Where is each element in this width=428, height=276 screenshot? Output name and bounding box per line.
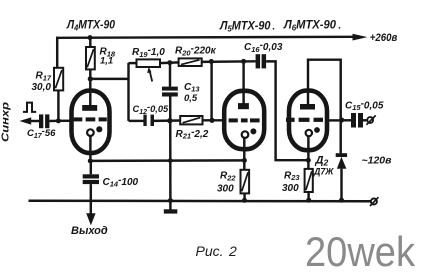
svg-text:+260в: +260в (370, 32, 398, 44)
svg-text:Д2: Д2 (315, 155, 329, 168)
svg-text:300: 300 (282, 183, 299, 194)
capacitor C13 (162, 63, 178, 97)
node: tube2 anode junction (241, 59, 246, 64)
svg-text:Л5МТХ-90: Л5МТХ-90 (219, 19, 271, 34)
svg-text:С16-0,03: С16-0,03 (244, 40, 283, 54)
wire: anode node to R19/C12 branch (90, 78, 128, 80)
Л4 cathode lead (89, 136, 91, 161)
speck after Л5 label (273, 28, 275, 30)
Л4 anode lead (89, 79, 91, 106)
capacitor C16 plates (256, 54, 267, 68)
resistor R18 (86, 38, 95, 79)
wire: R20 node down to grid node (210, 62, 212, 121)
Л4 cathode circle (87, 129, 94, 136)
wire: C12 to R21 (154, 119, 180, 122)
wire: bus left corner down to R17 (56, 37, 58, 68)
Л5 cathode circle (242, 131, 249, 138)
resistor R22 (241, 170, 250, 201)
ground (164, 209, 178, 213)
+260в supply arrow head (353, 34, 368, 41)
svg-text:2: 2 (228, 243, 237, 259)
tube Л5 envelope (224, 91, 264, 149)
resistor R17 (54, 68, 63, 121)
svg-text:R21-2,2: R21-2,2 (176, 127, 209, 141)
svg-text:30,0: 30,0 (32, 82, 52, 93)
node: R21/grid junction (209, 118, 214, 123)
output terminal circle (367, 117, 373, 123)
capacitor C15 (342, 113, 367, 128)
node: R23/ground bus (306, 198, 311, 203)
tube Л4 envelope (72, 91, 110, 154)
node: input/grid junction (56, 118, 61, 123)
wire: arrow to C17 (30, 120, 39, 122)
wire: Л6 anode loop to diode column (308, 60, 341, 154)
Л4 cathode dot (96, 126, 102, 132)
capacitor C14 (83, 161, 99, 214)
node: tube1 anode junction (88, 76, 93, 81)
node: ground bus junction (168, 198, 173, 203)
Л5 grid dashes (229, 118, 260, 122)
ground bus wire (29, 200, 372, 203)
svg-text:~120в: ~120в (362, 154, 393, 166)
Л4 anode plate bar (82, 105, 97, 111)
wire: C16 right down and to Л6 cathode (266, 61, 308, 160)
wire: C17 to grid node (49, 120, 58, 123)
svg-text:С15-0,05: С15-0,05 (345, 98, 384, 112)
svg-text:1,1: 1,1 (100, 55, 113, 66)
svg-text:R17: R17 (36, 71, 52, 83)
svg-text:0,5: 0,5 (184, 93, 198, 104)
bottom right terminal circle (371, 199, 377, 205)
wire: cathode link Л4 to Л5 (90, 159, 244, 162)
svg-text:Выход: Выход (71, 225, 108, 237)
svg-text:R22: R22 (220, 171, 236, 183)
node: R19/R20/C13 junction (167, 60, 172, 65)
capacitor C17 plates (39, 114, 49, 128)
tube Л6 envelope (289, 91, 327, 151)
svg-text:С17-56: С17-56 (27, 126, 56, 140)
resistor R21 (180, 116, 225, 124)
node: Л5 cathode junction (242, 158, 247, 163)
Л6 cathode circle (306, 130, 312, 136)
svg-text:С12-0,05: С12-0,05 (133, 102, 170, 116)
svg-text:300: 300 (217, 183, 234, 194)
node: C12/R21 junction (167, 118, 172, 123)
output arrow Выход (86, 213, 95, 225)
wire: +260в top supply bus (56, 37, 353, 38)
Л6 cathode lead (307, 136, 309, 169)
svg-text:Л6МТХ-90: Л6МТХ-90 (283, 18, 336, 33)
resistor R23 (305, 169, 313, 200)
svg-text:Синхр: Синхр (0, 101, 12, 142)
svg-text:С13: С13 (184, 82, 200, 94)
Л5 cathode lead (243, 138, 245, 170)
speck after Л6 label (339, 27, 341, 29)
node: R20/C16 wire junction (209, 59, 214, 64)
node: diode/ground bus (339, 198, 344, 203)
Л6 grid wire to C15 column (327, 119, 342, 121)
node: bus / R18 junction (88, 35, 93, 40)
svg-text:R20-220к: R20-220к (175, 44, 217, 58)
capacitor C12 plates (143, 115, 154, 126)
svg-text:R23: R23 (284, 170, 300, 182)
Л6 cathode dot (314, 127, 320, 133)
resistor R20 (179, 58, 256, 66)
svg-text:Рис.: Рис. (196, 243, 224, 259)
svg-text:Д7Ж: Д7Ж (313, 167, 334, 177)
diode Д2 (336, 153, 347, 200)
pulse symbol (23, 103, 36, 112)
input arrow (Синхр) (19, 117, 31, 124)
Л6 grid dashes (286, 118, 323, 122)
Л6 anode plate bar (300, 104, 315, 110)
Л5 anode plate bar (238, 103, 249, 109)
svg-text:Л4МТХ-90: Л4МТХ-90 (66, 18, 115, 33)
node: cathode-link junction (168, 158, 173, 163)
wire: C13 to ground bar (169, 97, 172, 210)
potentiometer R19 (137, 59, 179, 81)
svg-text:R19-1,0: R19-1,0 (132, 45, 165, 59)
node: R22/ground bus (242, 198, 247, 203)
svg-text:20wek: 20wek (305, 228, 416, 275)
Л5 cathode dot (250, 128, 256, 134)
Л4 grid dashes (74, 117, 107, 121)
wire: node down to Л5 anode (242, 61, 244, 104)
Л4 grid wire from input node (58, 120, 73, 122)
node: Л6 cathode / C16 wire junction (306, 158, 311, 163)
node: Л4 cathode junction (88, 158, 93, 163)
node: grid/C15 junction (339, 117, 344, 122)
svg-text:С14-100: С14-100 (103, 175, 139, 189)
